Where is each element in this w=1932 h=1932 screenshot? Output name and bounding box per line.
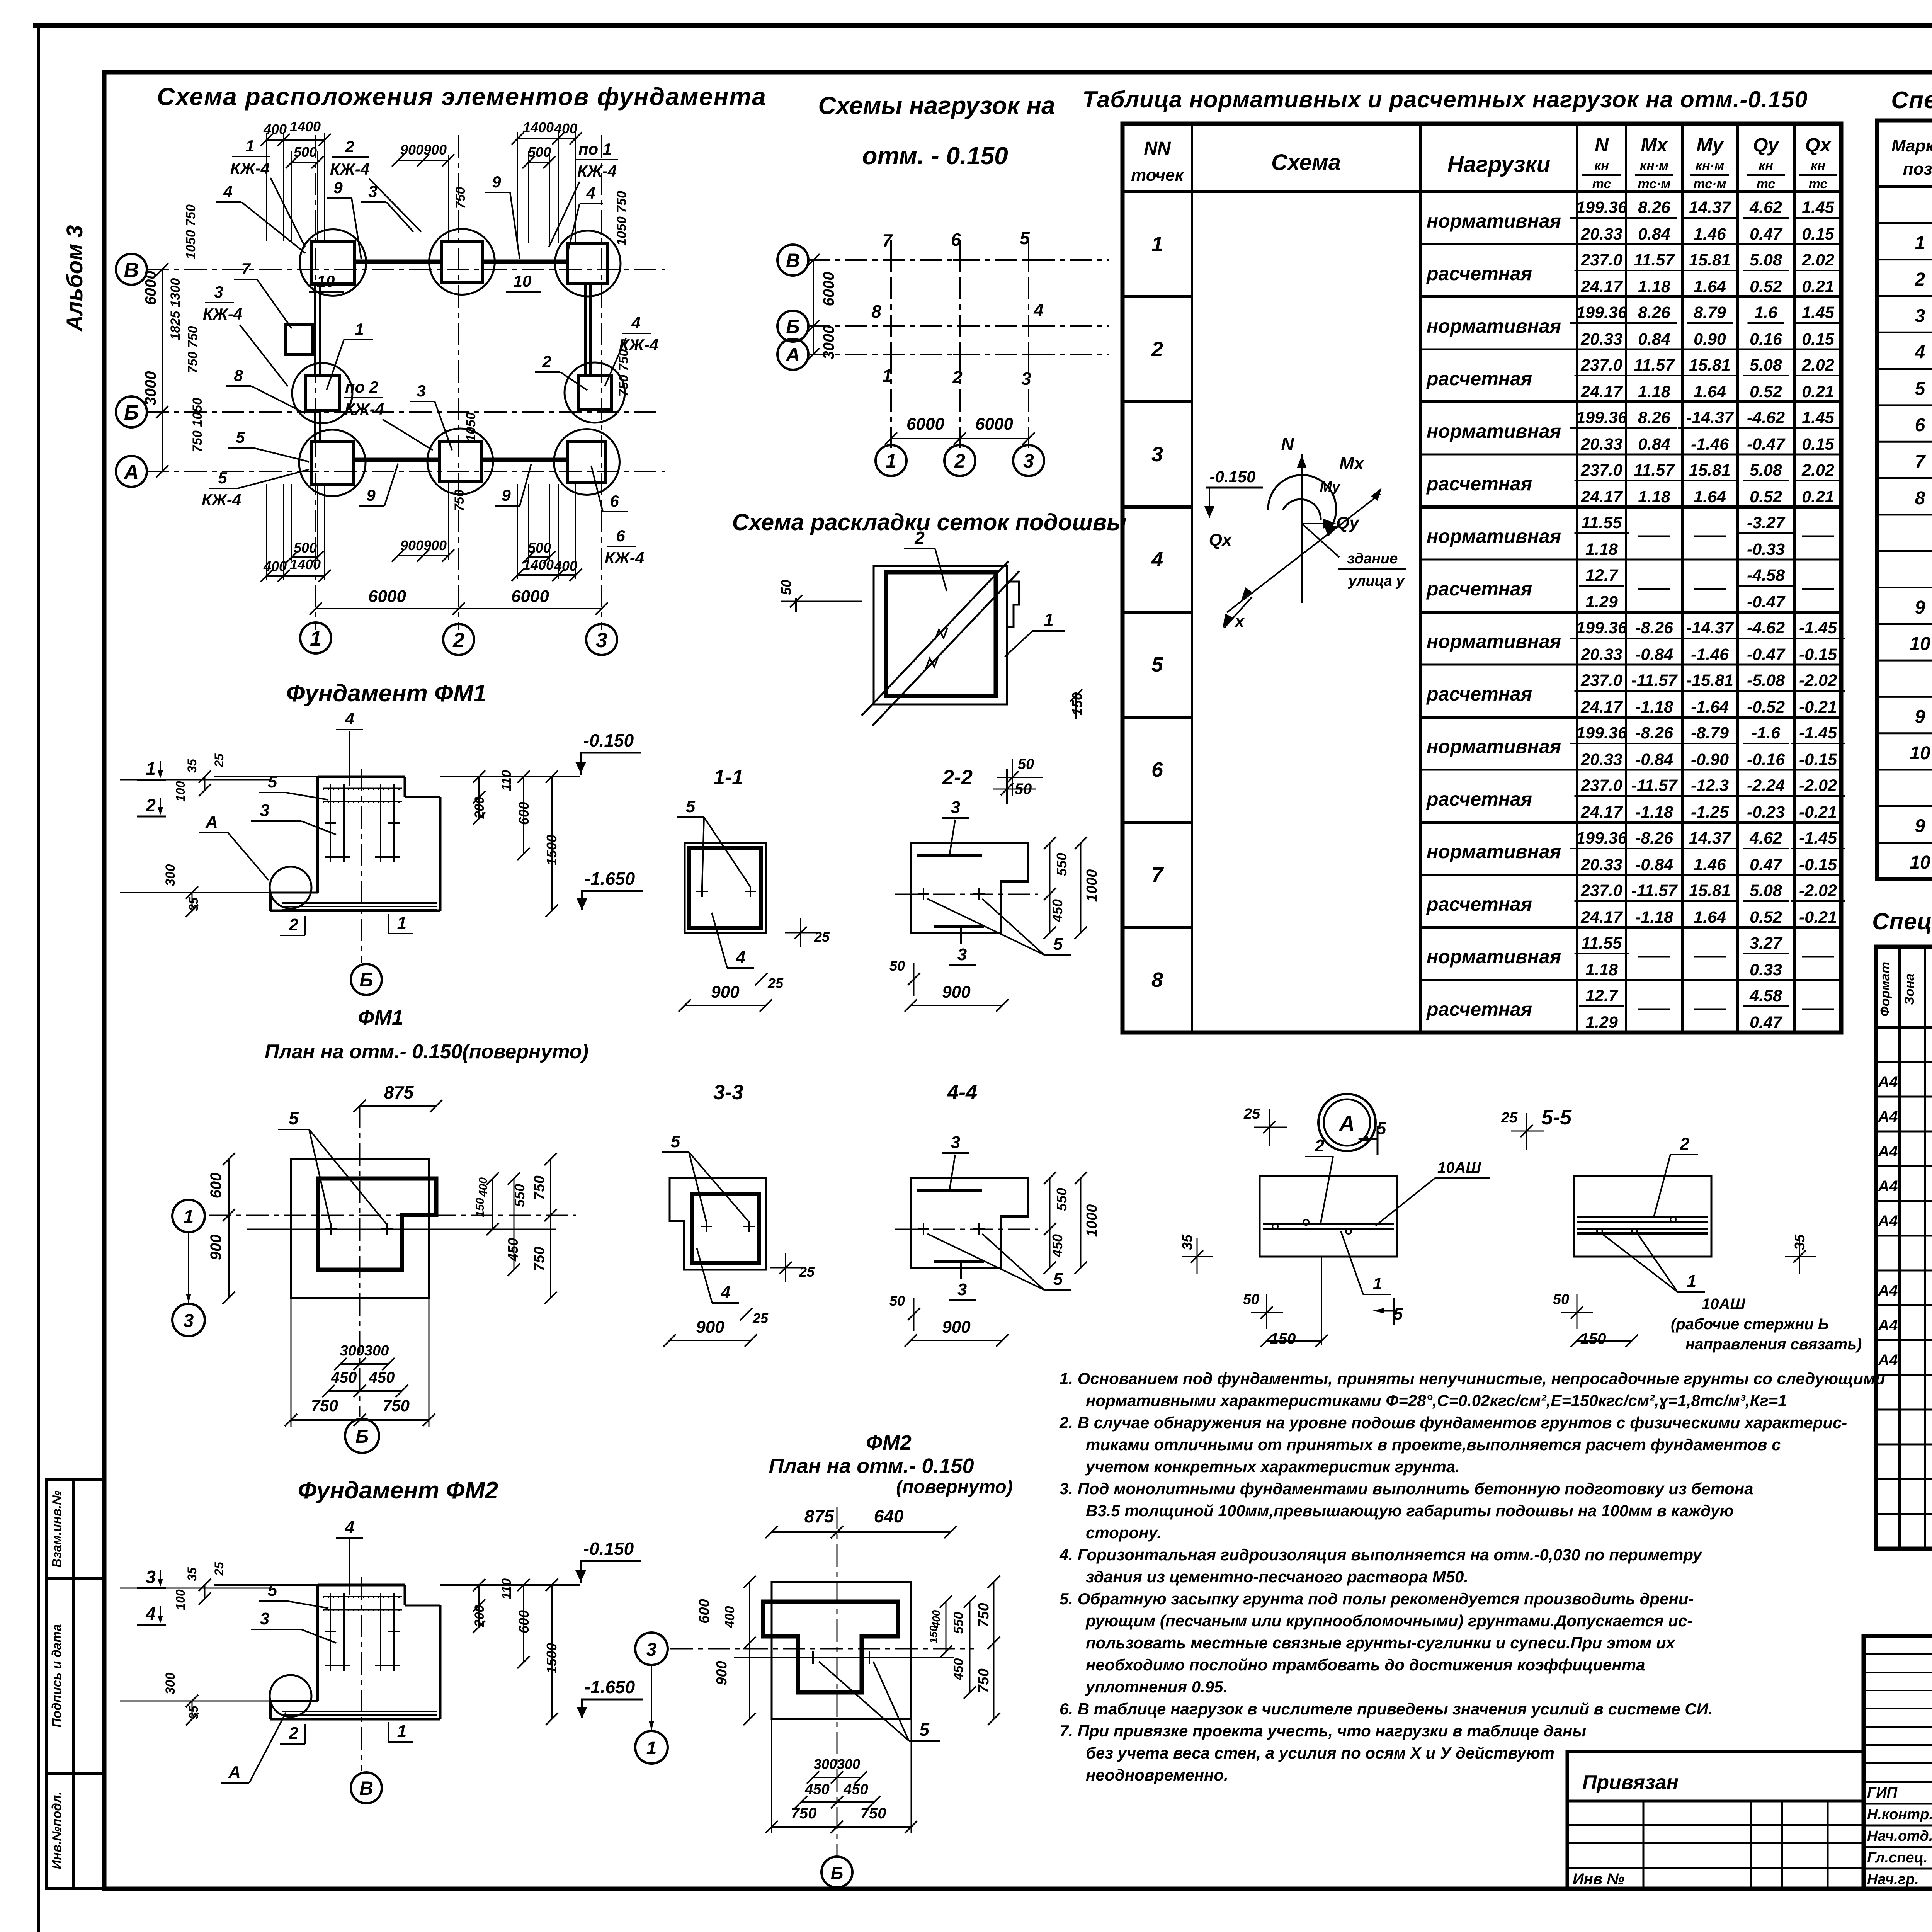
svg-text:Б: Б: [124, 401, 139, 424]
load point 6: [951, 230, 967, 267]
ФМ2 plan axis bubble Б: [821, 1857, 852, 1888]
svg-text:5.08: 5.08: [1750, 251, 1782, 269]
svg-text:-1.45: -1.45: [1799, 829, 1837, 847]
title block signatures column: [1867, 1778, 1932, 1888]
svg-text:20.33: 20.33: [1580, 330, 1622, 349]
svg-text:7. При привязке проекта учесть: 7. При привязке проекта учесть, что нагр…: [1060, 1722, 1586, 1740]
plan dimension extension lines bottom: [267, 482, 576, 580]
spec1 row 7: ФМ6: [1915, 415, 1932, 435]
svg-text:5: 5: [289, 1108, 299, 1128]
leader 4 (В/1): [216, 182, 305, 253]
svg-text:-1.45: -1.45: [1799, 724, 1837, 742]
svg-text:3000: 3000: [820, 325, 837, 360]
svg-text:3: 3: [260, 801, 269, 820]
svg-text:1.18: 1.18: [1638, 383, 1670, 401]
plan title: [157, 83, 767, 111]
svg-text:А4: А4: [1878, 1143, 1898, 1160]
svg-text:3: 3: [951, 1133, 960, 1152]
spec1 title: [1891, 87, 1932, 114]
level mark -1.650: [577, 1677, 643, 1718]
svg-text:199.36: 199.36: [1576, 198, 1628, 217]
mesh label 2: [904, 528, 947, 591]
svg-text:10: 10: [1910, 852, 1930, 873]
mesh diag break marks: [926, 628, 947, 668]
svg-text:-0.15: -0.15: [1799, 645, 1837, 664]
loads row 7 расчетная: [1426, 881, 1845, 927]
svg-text:Б: Б: [786, 316, 799, 337]
plan axis line В: [147, 269, 665, 270]
svg-text:-1.25: -1.25: [1691, 803, 1729, 821]
svg-text:11.57: 11.57: [1634, 356, 1675, 374]
svg-text:1.64: 1.64: [1694, 383, 1726, 401]
svg-text:9: 9: [502, 486, 511, 504]
svg-text:5: 5: [268, 772, 277, 791]
ФМ1 plan label 5: [278, 1108, 387, 1225]
svg-text:Н.контр.: Н.контр.: [1867, 1806, 1932, 1823]
svg-text:1: 1: [1687, 1272, 1696, 1291]
foundation ФМ3 (А/2): [427, 429, 493, 494]
svg-text:750: 750: [383, 1396, 410, 1415]
svg-text:3: 3: [957, 1280, 967, 1299]
foundation body outline: [214, 777, 580, 911]
svg-text:-8.26: -8.26: [1635, 829, 1673, 847]
svg-text:15.81: 15.81: [1689, 461, 1731, 480]
svg-text:4: 4: [631, 314, 640, 332]
svg-text:9: 9: [492, 173, 501, 191]
loads row 3 нормативная: [1427, 408, 1841, 454]
svg-text:Фундамент ФМ1: Фундамент ФМ1: [286, 680, 487, 707]
svg-text:-1.18: -1.18: [1635, 803, 1673, 821]
svg-text:5: 5: [1915, 379, 1926, 399]
svg-text:-0.150: -0.150: [583, 730, 634, 750]
svg-text:-8.79: -8.79: [1691, 724, 1729, 742]
foundation ФМ1 title: [286, 680, 487, 707]
mesh label 1: [1005, 610, 1065, 657]
svg-text:750: 750: [861, 1805, 886, 1822]
svg-text:0.15: 0.15: [1802, 435, 1835, 454]
svg-text:900: 900: [942, 983, 971, 1002]
svg-text:900900: 900900: [400, 537, 447, 553]
pedestal rebar: [323, 1593, 402, 1671]
svg-text:Нагрузки: Нагрузки: [1447, 152, 1550, 177]
svg-text:7: 7: [241, 260, 251, 278]
svg-text:Поз.: Поз.: [1930, 974, 1932, 1005]
plan right small dims: [452, 187, 631, 512]
spec1 header: [1891, 136, 1932, 179]
spec1 row 4: ФМ3: [1915, 306, 1932, 326]
svg-text:А: А: [1338, 1111, 1355, 1136]
svg-text:8: 8: [1915, 488, 1925, 509]
ФМ2 plan top dim 875/640: [765, 1506, 957, 1538]
plan axis line 3: [601, 135, 602, 630]
svg-text:расчетная: расчетная: [1426, 683, 1532, 705]
svg-text:-14.37: -14.37: [1686, 408, 1734, 427]
svg-text:0.15: 0.15: [1802, 330, 1835, 349]
svg-text:6000: 6000: [511, 587, 549, 606]
svg-text:тс: тс: [1757, 177, 1776, 191]
svg-text:15.81: 15.81: [1689, 251, 1731, 269]
svg-text:199.36: 199.36: [1576, 303, 1628, 322]
svg-text:КЖ-4: КЖ-4: [203, 305, 242, 323]
svg-text:1: 1: [646, 1738, 657, 1759]
leader 5 КЖ-4 (А/1): [202, 469, 309, 509]
svg-text:-4.62: -4.62: [1747, 619, 1785, 637]
svg-text:500: 500: [294, 540, 317, 556]
svg-text:В3.5 толщиной 100мм,превышающу: В3.5 толщиной 100мм,превышающую габариты…: [1086, 1502, 1734, 1520]
leader 1 (Б/1): [327, 320, 373, 390]
loads table point numbers: [1151, 233, 1164, 992]
spec1 row 18: 3БФ6-23АтVСК: [1915, 816, 1932, 837]
svg-text:237.0: 237.0: [1580, 881, 1622, 900]
svg-text:N: N: [1595, 134, 1609, 156]
svg-text:199.36: 199.36: [1576, 829, 1628, 847]
svg-text:24.17: 24.17: [1580, 383, 1623, 401]
svg-text:Альбом 3: Альбом 3: [62, 225, 87, 332]
svg-text:Нач.гр.: Нач.гр.: [1867, 1871, 1919, 1888]
elevation right dims: [472, 1578, 560, 1725]
wall beam 10 axis1 lower: [315, 411, 320, 442]
svg-text:3: 3: [214, 283, 223, 301]
svg-text:20.33: 20.33: [1580, 435, 1622, 454]
svg-text:без учета веса стен, а усилия: без учета веса стен, а усилия по осям Х …: [1086, 1744, 1554, 1762]
svg-text:Гл.спец.: Гл.спец.: [1867, 1850, 1928, 1866]
leader 8: [226, 366, 305, 413]
svg-text:5: 5: [268, 1581, 277, 1600]
leader по 2 КЖ-4: [344, 378, 433, 450]
svg-text:6. В таблице нагрузок в числит: 6. В таблице нагрузок в числителе привед…: [1060, 1700, 1713, 1718]
elevation right dims: [472, 770, 560, 917]
ФМ1 plan outline: [291, 1159, 436, 1298]
svg-text:9: 9: [333, 179, 343, 197]
svg-text:24.17: 24.17: [1580, 698, 1623, 716]
svg-text:0.21: 0.21: [1802, 488, 1834, 506]
svg-text:750: 750: [531, 1175, 548, 1200]
svg-text:750: 750: [976, 1603, 992, 1627]
svg-text:учетом конкретных характерист: учетом конкретных характеристик грунта.: [1085, 1458, 1460, 1476]
svg-text:1.46: 1.46: [1694, 225, 1726, 243]
wall beam 10 axis1 upper: [315, 285, 320, 376]
svg-text:1: 1: [310, 627, 321, 650]
svg-text:900: 900: [207, 1235, 224, 1260]
svg-text:1400: 1400: [290, 556, 321, 572]
svg-text:8.26: 8.26: [1638, 408, 1671, 427]
svg-text:-0.150: -0.150: [1209, 468, 1255, 486]
svg-text:А: А: [205, 813, 218, 832]
foundation beam 9 (А,1-2): [353, 458, 439, 462]
svg-text:1: 1: [1044, 610, 1054, 630]
loads row 8 нормативная: [1427, 934, 1834, 979]
svg-text:2: 2: [1315, 1136, 1325, 1155]
svg-text:-1.64: -1.64: [1691, 698, 1729, 716]
svg-text:0.47: 0.47: [1750, 855, 1783, 874]
svg-text:-11.57: -11.57: [1631, 776, 1678, 795]
svg-text:нормативная: нормативная: [1427, 841, 1561, 862]
svg-text:Схема: Схема: [1271, 150, 1341, 175]
ФМ2 plan right dims: [927, 1576, 1000, 1725]
svg-text:1050 750: 1050 750: [184, 204, 198, 259]
mesh diagonal 2: [872, 571, 1019, 726]
svg-text:В: В: [124, 259, 139, 282]
svg-text:А4: А4: [1878, 1352, 1898, 1369]
section 4-4: [889, 1081, 1100, 1347]
mesh outer square (item 1): [874, 566, 1007, 704]
spec2 title: [1872, 908, 1932, 934]
svg-text:900: 900: [942, 1318, 971, 1337]
foundation ФМ5 (А/1): [299, 430, 366, 496]
axis bubble Б: [116, 396, 147, 427]
svg-text:расчетная: расчетная: [1426, 578, 1532, 600]
svg-text:150: 150: [1270, 1330, 1296, 1347]
ФМ1 plan axis bubble 1: [172, 1200, 205, 1232]
load axis line В: [808, 259, 1109, 261]
svg-text:1.45: 1.45: [1802, 408, 1835, 427]
plan top dimension 1400/400 right: [512, 119, 582, 145]
svg-text:0.47: 0.47: [1750, 1013, 1783, 1032]
svg-text:тс·м: тс·м: [1693, 177, 1726, 191]
svg-text:-0.21: -0.21: [1799, 908, 1837, 927]
svg-text:А4: А4: [1878, 1178, 1898, 1195]
loads row 8 расчетная: [1426, 986, 1834, 1032]
svg-text:неодновременно.: неодновременно.: [1086, 1766, 1228, 1784]
foundation ФМ4 (В/3): [555, 231, 621, 296]
svg-text:237.0: 237.0: [1580, 356, 1622, 374]
svg-text:24.17: 24.17: [1580, 277, 1623, 296]
svg-text:5: 5: [1053, 1270, 1063, 1289]
svg-text:8.79: 8.79: [1694, 303, 1726, 322]
svg-text:нормативная: нормативная: [1427, 526, 1561, 547]
spec2 row 10: [1878, 1349, 1932, 1369]
svg-text:1.18: 1.18: [1585, 540, 1618, 559]
leader 9 (В,2-3): [485, 173, 520, 259]
svg-text:Формат: Формат: [1878, 962, 1893, 1017]
svg-text:2. В случае обнаружения на уро: 2. В случае обнаружения на уровне подошв…: [1059, 1413, 1847, 1432]
svg-text:0.21: 0.21: [1802, 383, 1834, 401]
svg-text:нормативная: нормативная: [1427, 420, 1561, 442]
loads row 2 нормативная: [1427, 303, 1841, 349]
svg-text:2: 2: [289, 1724, 299, 1743]
svg-text:6000: 6000: [906, 415, 944, 434]
svg-text:А4: А4: [1878, 1073, 1898, 1090]
svg-text:12.7: 12.7: [1585, 566, 1619, 585]
svg-text:450: 450: [804, 1781, 829, 1798]
leader по 1 КЖ-4: [549, 140, 618, 247]
svg-text:5: 5: [1053, 935, 1063, 954]
svg-text:50: 50: [889, 1293, 905, 1309]
elevation centerline: [361, 1577, 362, 1771]
pedestal rebar: [323, 784, 402, 862]
svg-text:1000: 1000: [1084, 1204, 1100, 1237]
svg-text:450: 450: [331, 1369, 357, 1386]
svg-text:Таблица нормативных и расчетны: Таблица нормативных и расчетных нагрузок…: [1082, 87, 1808, 112]
svg-text:400: 400: [723, 1606, 737, 1629]
svg-text:3: 3: [1915, 306, 1925, 326]
plan top dimension 900 900: [392, 142, 454, 167]
svg-text:3: 3: [646, 1639, 657, 1660]
svg-text:1.18: 1.18: [1638, 488, 1670, 506]
spec1 row 9: Перемычка 2ПП23-7: [1915, 488, 1932, 509]
svg-text:1.46: 1.46: [1694, 855, 1726, 874]
svg-text:0.52: 0.52: [1750, 383, 1782, 401]
ФМ2 plan bottom dims: [765, 1719, 917, 1833]
svg-text:4: 4: [1915, 342, 1925, 363]
spec2 row 2: [1878, 1066, 1932, 1097]
svg-text:10: 10: [1910, 634, 1930, 654]
svg-text:2: 2: [289, 915, 299, 934]
svg-text:110: 110: [499, 1578, 514, 1599]
svg-text:500: 500: [528, 540, 551, 556]
svg-text:-3.27: -3.27: [1747, 514, 1786, 532]
svg-text:0.52: 0.52: [1750, 277, 1782, 296]
svg-text:-1.650: -1.650: [585, 1677, 635, 1697]
svg-text:кн·м: кн·м: [1696, 158, 1724, 173]
svg-text:Б: Б: [359, 969, 373, 991]
foundation beam 9 (В,1-2): [354, 260, 442, 264]
svg-text:150: 150: [1069, 692, 1085, 716]
svg-text:КЖ-4: КЖ-4: [202, 491, 241, 509]
svg-text:6000: 6000: [142, 271, 159, 305]
plan axis line 2: [458, 135, 459, 630]
svg-text:1400: 1400: [523, 557, 554, 573]
svg-text:1050 750: 1050 750: [614, 191, 629, 246]
svg-text:-0.52: -0.52: [1747, 698, 1785, 716]
leader 4 (В/3): [568, 184, 603, 251]
svg-text:расчетная: расчетная: [1426, 368, 1532, 389]
load axis line Б: [808, 325, 1109, 327]
svg-text:300300: 300300: [340, 1343, 389, 1359]
svg-text:1000: 1000: [1084, 869, 1100, 902]
album label: [62, 225, 87, 332]
svg-text:расчетная: расчетная: [1426, 998, 1532, 1020]
plan bottom dimension 6000+6000: [310, 587, 608, 615]
loads table grid: [1122, 124, 1841, 1032]
svg-text:640: 640: [874, 1506, 904, 1526]
left stamp column: [46, 1480, 104, 1889]
load scheme title line2: [862, 142, 1008, 170]
axis bubble В: [116, 254, 147, 285]
svg-text:-1.18: -1.18: [1635, 698, 1673, 716]
spec1 row 19: 3БФ6-18АтVСК: [1910, 852, 1932, 873]
svg-text:5: 5: [1020, 228, 1030, 248]
svg-text:550: 550: [1054, 1188, 1070, 1211]
svg-text:900: 900: [696, 1318, 724, 1337]
svg-text:2-2: 2-2: [942, 766, 973, 789]
svg-text:400: 400: [554, 558, 577, 574]
svg-text:900: 900: [714, 1661, 730, 1685]
svg-text:4: 4: [736, 948, 745, 967]
foundation ФМ1 (Б/1): [292, 363, 352, 423]
svg-text:10: 10: [317, 272, 335, 290]
leader 6 КЖ-4: [605, 527, 644, 567]
svg-text:нормативная: нормативная: [1427, 946, 1561, 968]
svg-text:В: В: [786, 250, 800, 271]
spec1 row 13: 2БФ6-16АтVСК: [1910, 634, 1932, 654]
svg-text:2: 2: [1915, 269, 1925, 290]
loads row 7 нормативная: [1427, 829, 1845, 874]
spec2 grid: [1876, 947, 1932, 1549]
svg-text:кн: кн: [1594, 158, 1609, 173]
detail А dim 25: [1243, 1106, 1287, 1146]
svg-text:x: x: [1234, 612, 1245, 630]
svg-text:6: 6: [616, 527, 625, 545]
svg-text:0.84: 0.84: [1638, 435, 1670, 454]
spec1 row 15: 2БФ6-20АтVСК: [1915, 707, 1932, 727]
base slab rebar: [282, 1711, 437, 1718]
svg-text:поз.: поз.: [1903, 160, 1932, 179]
svg-text:875: 875: [804, 1506, 835, 1526]
loads row 6 нормативная: [1427, 724, 1845, 769]
svg-text:150: 150: [474, 1198, 486, 1217]
svg-text:20.33: 20.33: [1580, 855, 1622, 874]
svg-text:3: 3: [596, 629, 607, 652]
plan top dimension 500 right: [522, 144, 556, 168]
svg-text:750 1050: 750 1050: [190, 398, 205, 452]
svg-text:25: 25: [814, 929, 830, 945]
svg-text:-1.18: -1.18: [1635, 908, 1673, 927]
svg-text:24.17: 24.17: [1580, 488, 1623, 506]
foundation ФМ2 (Б/3): [565, 362, 625, 423]
svg-text:300300: 300300: [814, 1756, 860, 1772]
svg-text:Инв №: Инв №: [1573, 1871, 1624, 1888]
svg-text:Mx: Mx: [1339, 453, 1365, 473]
svg-text:по 2: по 2: [345, 378, 378, 396]
title block grid: [1864, 1636, 1932, 1889]
section 2-2 dim 50 top: [997, 756, 1043, 796]
svg-text:237.0: 237.0: [1580, 251, 1622, 269]
leader 10 axis1: [309, 272, 344, 292]
svg-text:9: 9: [1915, 816, 1925, 837]
svg-text:7: 7: [882, 230, 893, 250]
svg-text:3: 3: [146, 1567, 156, 1587]
svg-text:400: 400: [263, 558, 287, 574]
svg-text:199.36: 199.36: [1576, 619, 1628, 637]
svg-text:25: 25: [1243, 1106, 1260, 1122]
svg-text:-0.84: -0.84: [1635, 855, 1673, 874]
svg-text:9: 9: [366, 486, 376, 504]
leader 9 (А,2-3): [495, 464, 531, 506]
привязан stamp table: [1567, 1752, 1864, 1889]
load scheme left dims: [807, 254, 837, 361]
svg-text:35: 35: [1179, 1234, 1195, 1250]
spec2 row 4: [1878, 1139, 1932, 1166]
svg-text:-11.57: -11.57: [1631, 671, 1678, 690]
svg-text:Схема расположения элементов: Схема расположения элементов фундамента: [157, 83, 767, 111]
svg-text:Нач.отд.: Нач.отд.: [1867, 1828, 1932, 1844]
mesh scheme title: [732, 509, 1127, 535]
svg-text:1. Основанием под фундаменты,: 1. Основанием под фундаменты, приняты не…: [1060, 1369, 1885, 1388]
svg-text:3: 3: [951, 798, 960, 817]
svg-text:1: 1: [1915, 233, 1925, 253]
svg-text:кн: кн: [1811, 158, 1825, 173]
svg-text:-0.90: -0.90: [1691, 750, 1729, 769]
svg-text:нормативная: нормативная: [1427, 210, 1561, 232]
svg-text:-2.24: -2.24: [1747, 776, 1785, 795]
svg-text:-15.81: -15.81: [1686, 671, 1733, 690]
svg-text:-5.08: -5.08: [1747, 671, 1785, 690]
svg-text:-4.62: -4.62: [1747, 408, 1785, 427]
svg-text:My: My: [1696, 134, 1724, 156]
svg-text:Зона: Зона: [1902, 973, 1917, 1005]
svg-text:750: 750: [453, 187, 468, 209]
section 3-3: [662, 1081, 815, 1347]
leader 3 (А/2): [410, 382, 452, 450]
svg-text:100: 100: [173, 1589, 187, 1610]
ФМ1 plan right dims: [474, 1153, 557, 1304]
svg-text:750: 750: [452, 490, 467, 512]
svg-text:Схема раскладки сеток подошвы: Схема раскладки сеток подошвы: [732, 509, 1127, 535]
svg-text:по 1: по 1: [578, 140, 612, 158]
svg-text:25: 25: [212, 1561, 226, 1576]
load axis line 1: [890, 240, 892, 448]
